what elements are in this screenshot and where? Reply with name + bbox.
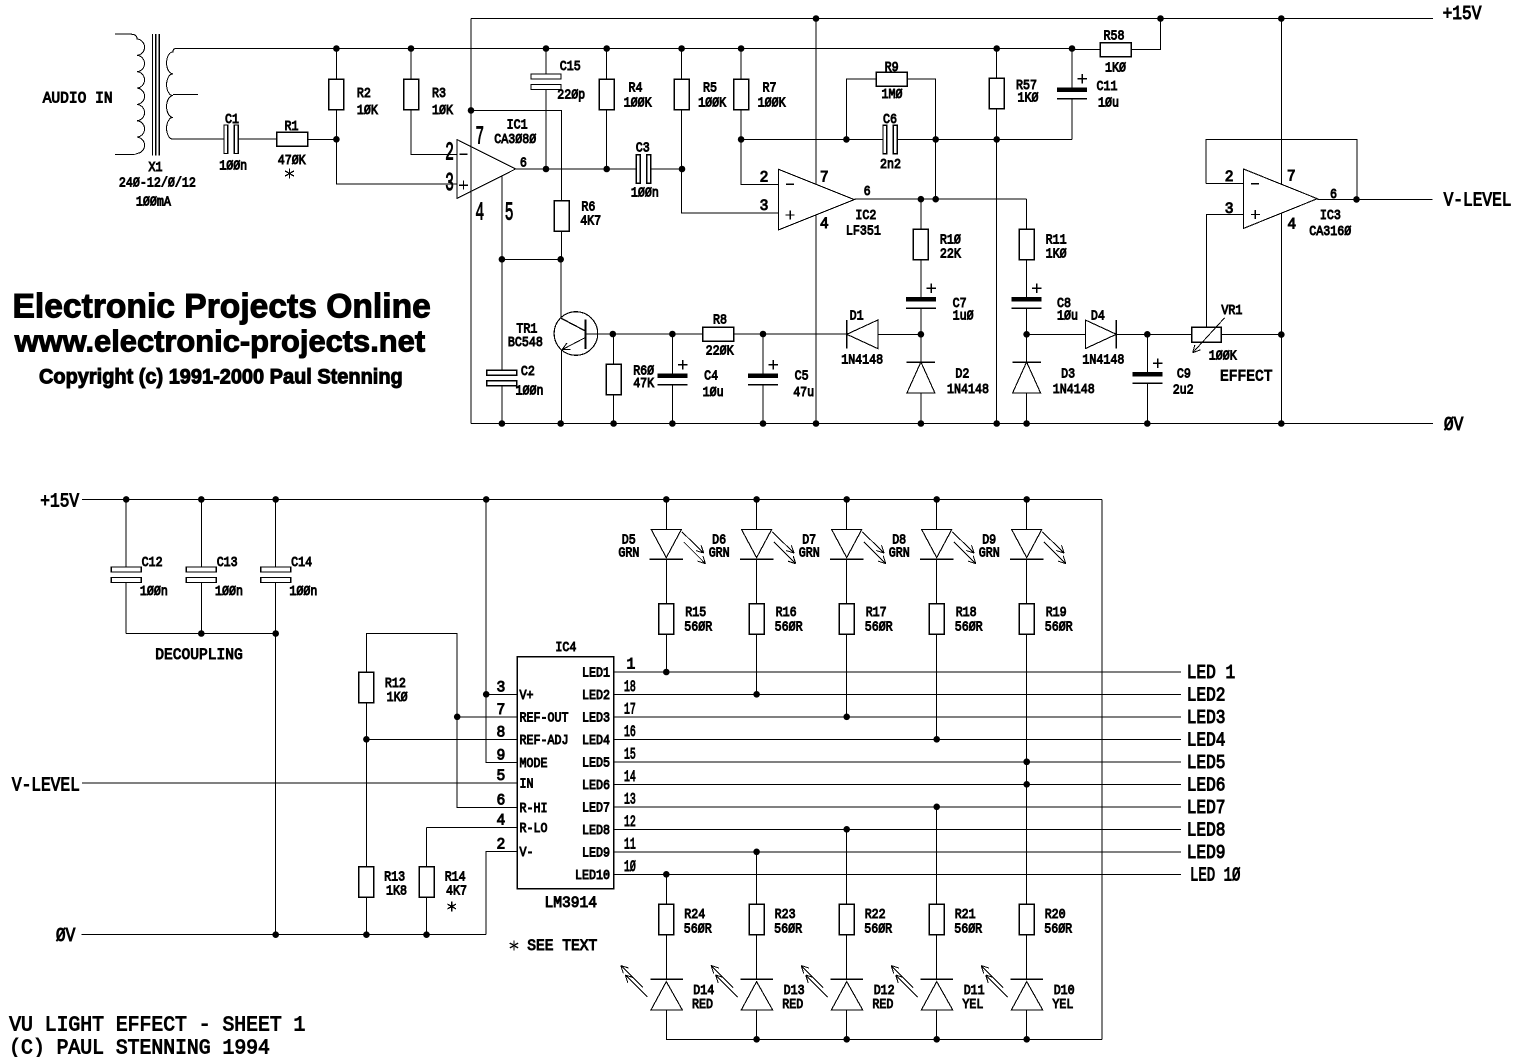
svg-text:+15V: +15V [40, 490, 79, 512]
svg-text:AUDIO IN: AUDIO IN [43, 90, 113, 108]
svg-text:REF-OUT: REF-OUT [520, 710, 569, 726]
svg-text:LM3914: LM3914 [545, 894, 598, 912]
svg-text:1: 1 [627, 656, 636, 674]
svg-text:LED10: LED10 [575, 868, 610, 884]
svg-text:LED2: LED2 [1187, 684, 1226, 706]
svg-text:LED9: LED9 [582, 845, 610, 861]
svg-text:1ØK: 1ØK [357, 103, 378, 119]
svg-text:D2: D2 [955, 367, 969, 383]
svg-text:4: 4 [820, 215, 829, 233]
svg-text:C1: C1 [225, 112, 239, 128]
svg-text:D4: D4 [1091, 309, 1105, 325]
svg-text:1N4148: 1N4148 [1082, 352, 1124, 368]
svg-text:RED: RED [692, 997, 713, 1013]
svg-text:R20: R20 [1045, 907, 1066, 923]
svg-text:5: 5 [497, 767, 506, 785]
svg-text:C6: C6 [883, 112, 897, 128]
svg-text:R23: R23 [775, 907, 796, 923]
svg-text:1Øu: 1Øu [703, 385, 724, 401]
svg-text:V-: V- [520, 845, 534, 861]
svg-text:5: 5 [505, 197, 514, 227]
svg-text:56ØR: 56ØR [865, 620, 893, 636]
svg-text:1Ø: 1Ø [624, 858, 636, 876]
svg-text:ØV: ØV [56, 925, 76, 947]
svg-text:12: 12 [624, 813, 636, 831]
svg-text:2n2: 2n2 [880, 157, 901, 173]
svg-text:C12: C12 [142, 555, 163, 571]
svg-text:1N4148: 1N4148 [841, 352, 883, 368]
svg-text:1ØØK: 1ØØK [624, 96, 652, 112]
svg-text:CA3Ø8Ø: CA3Ø8Ø [494, 132, 536, 148]
svg-text:IC3: IC3 [1320, 208, 1341, 224]
svg-text:1ØØn: 1ØØn [140, 584, 168, 600]
svg-text:LED6: LED6 [1187, 774, 1226, 796]
svg-text:ØV: ØV [1444, 414, 1464, 436]
svg-text:4K7: 4K7 [580, 214, 601, 230]
svg-text:R3: R3 [432, 86, 446, 102]
svg-text:1ØØmA: 1ØØmA [136, 194, 171, 210]
svg-text:1MØ: 1MØ [882, 87, 903, 103]
svg-text:22ØK: 22ØK [706, 343, 734, 359]
svg-text:1ØØK: 1ØØK [698, 96, 726, 112]
svg-text:56ØR: 56ØR [1045, 620, 1073, 636]
svg-text:MODE: MODE [520, 756, 548, 772]
svg-text:18: 18 [624, 678, 636, 696]
svg-text:56ØR: 56ØR [684, 922, 712, 938]
svg-text:R-HI: R-HI [520, 801, 548, 817]
svg-text:CA316Ø: CA316Ø [1309, 224, 1351, 240]
svg-text:4: 4 [1287, 215, 1296, 233]
svg-text:D3: D3 [1061, 367, 1075, 383]
svg-text:LED4: LED4 [1187, 729, 1226, 751]
svg-text:LED8: LED8 [1187, 819, 1226, 841]
svg-text:2: 2 [760, 169, 769, 187]
svg-text:IC4: IC4 [555, 640, 576, 656]
svg-text:C14: C14 [291, 555, 312, 571]
svg-text:C15: C15 [560, 59, 581, 75]
svg-text:R4: R4 [629, 81, 643, 97]
svg-text:R7: R7 [763, 81, 777, 97]
svg-text:LED5: LED5 [1187, 752, 1226, 774]
svg-text:47ØK: 47ØK [278, 153, 306, 169]
svg-text:1uØ: 1uØ [953, 309, 974, 325]
svg-text:1Øu: 1Øu [1057, 309, 1078, 325]
svg-text:YEL: YEL [1052, 997, 1073, 1013]
svg-text:56ØR: 56ØR [774, 922, 802, 938]
svg-text:2: 2 [497, 836, 506, 854]
svg-text:6: 6 [497, 791, 506, 809]
svg-text:13: 13 [624, 790, 636, 808]
svg-text:C4: C4 [704, 368, 718, 384]
svg-text:R22: R22 [865, 907, 886, 923]
svg-text:4: 4 [475, 197, 484, 227]
svg-text:IN: IN [520, 777, 534, 793]
svg-text:56ØR: 56ØR [775, 620, 803, 636]
svg-text:56ØR: 56ØR [954, 922, 982, 938]
svg-text:RED: RED [782, 997, 803, 1013]
svg-text:R24: R24 [684, 907, 705, 923]
svg-text:6: 6 [1330, 187, 1337, 203]
svg-text:+15V: +15V [1443, 3, 1482, 25]
svg-text:C2: C2 [521, 364, 535, 380]
svg-text:3: 3 [445, 168, 454, 198]
svg-text:LED8: LED8 [582, 823, 610, 839]
svg-text:1N4148: 1N4148 [947, 382, 989, 398]
svg-text:C13: C13 [217, 555, 238, 571]
svg-text:LED2: LED2 [582, 688, 610, 704]
svg-text:LED 1Ø: LED 1Ø [1190, 864, 1240, 886]
svg-text:1ØØn: 1ØØn [215, 584, 243, 600]
svg-text:C3: C3 [636, 141, 650, 157]
svg-text:56ØR: 56ØR [684, 620, 712, 636]
svg-text:1ØK: 1ØK [432, 103, 453, 119]
svg-text:4: 4 [497, 812, 506, 830]
svg-text:6: 6 [864, 184, 871, 200]
svg-text:47u: 47u [793, 385, 814, 401]
svg-text:1KØ: 1KØ [1046, 247, 1067, 263]
svg-text:22K: 22K [940, 247, 961, 263]
svg-text:2: 2 [445, 138, 454, 168]
svg-text:1ØØn: 1ØØn [631, 186, 659, 202]
svg-text:7: 7 [1287, 167, 1296, 185]
svg-text:GRN: GRN [889, 545, 910, 561]
svg-text:X1: X1 [149, 160, 163, 176]
svg-text:1ØØn: 1ØØn [219, 159, 247, 175]
svg-text:GRN: GRN [618, 545, 639, 561]
svg-text:C9: C9 [1177, 367, 1191, 383]
svg-text:14: 14 [624, 768, 636, 786]
svg-text:YEL: YEL [962, 997, 983, 1013]
svg-text:www.electronic-projects.net: www.electronic-projects.net [14, 323, 425, 358]
svg-text:GRN: GRN [979, 545, 1000, 561]
svg-text:LED9: LED9 [1187, 842, 1226, 864]
svg-text:(C) PAUL STENNING 1994: (C) PAUL STENNING 1994 [9, 1037, 270, 1057]
svg-text:2u2: 2u2 [1173, 383, 1194, 399]
svg-text:GRN: GRN [799, 545, 820, 561]
svg-text:D1: D1 [850, 309, 864, 325]
svg-text:15: 15 [624, 745, 636, 763]
svg-text:1ØØK: 1ØØK [758, 96, 786, 112]
svg-text:V+: V+ [520, 688, 534, 704]
svg-text:VR1: VR1 [1221, 303, 1242, 319]
svg-text:1Øu: 1Øu [1098, 96, 1119, 112]
svg-text:LED6: LED6 [582, 778, 610, 794]
svg-text:LED7: LED7 [582, 800, 610, 816]
svg-text:R-LO: R-LO [520, 821, 548, 837]
svg-text:LED7: LED7 [1187, 797, 1226, 819]
svg-text:1K8: 1K8 [386, 883, 407, 899]
svg-text:IC2: IC2 [855, 208, 876, 224]
svg-text:3: 3 [497, 678, 506, 696]
svg-text:LED5: LED5 [582, 755, 610, 771]
svg-text:GRN: GRN [709, 545, 730, 561]
svg-text:1ØØK: 1ØØK [1209, 348, 1237, 364]
svg-text:8: 8 [497, 723, 506, 741]
svg-text:17: 17 [624, 700, 636, 718]
svg-text:16: 16 [624, 723, 636, 741]
svg-text:11: 11 [624, 835, 636, 853]
svg-text:R21: R21 [955, 907, 976, 923]
svg-text:R58: R58 [1104, 29, 1125, 45]
svg-text:7: 7 [497, 701, 506, 719]
svg-text:1N4148: 1N4148 [1053, 382, 1095, 398]
svg-text:SEE TEXT: SEE TEXT [527, 937, 597, 955]
svg-text:LED 1: LED 1 [1187, 662, 1236, 684]
svg-text:IC1: IC1 [507, 118, 528, 134]
svg-text:1KØ: 1KØ [1018, 91, 1039, 107]
svg-text:1ØØn: 1ØØn [516, 384, 544, 400]
svg-text:R9: R9 [885, 60, 899, 76]
svg-text:LED3: LED3 [1187, 707, 1226, 729]
svg-text:LED4: LED4 [582, 733, 610, 749]
svg-text:R1: R1 [285, 119, 299, 135]
svg-text:24Ø-12/Ø/12: 24Ø-12/Ø/12 [119, 176, 196, 192]
svg-text:3: 3 [760, 197, 769, 215]
svg-text:DECOUPLING: DECOUPLING [155, 646, 243, 664]
svg-text:VU LIGHT EFFECT - SHEET 1: VU LIGHT EFFECT - SHEET 1 [9, 1014, 305, 1037]
svg-text:C5: C5 [795, 368, 809, 384]
svg-text:4K7: 4K7 [446, 883, 467, 899]
svg-text:LED1: LED1 [582, 666, 610, 682]
svg-text:EFFECT: EFFECT [1220, 367, 1273, 385]
svg-text:RED: RED [872, 997, 893, 1013]
svg-text:1KØ: 1KØ [387, 690, 408, 706]
svg-text:R8: R8 [713, 313, 727, 329]
svg-text:56ØR: 56ØR [1044, 922, 1072, 938]
svg-text:V-LEVEL: V-LEVEL [1444, 190, 1512, 212]
svg-text:C11: C11 [1097, 79, 1118, 95]
svg-text:V-LEVEL: V-LEVEL [12, 775, 80, 797]
svg-text:47K: 47K [633, 376, 654, 392]
svg-text:Electronic Projects Online: Electronic Projects Online [13, 287, 431, 325]
svg-text:56ØR: 56ØR [864, 922, 892, 938]
svg-text:56ØR: 56ØR [955, 620, 983, 636]
svg-text:1ØØn: 1ØØn [289, 584, 317, 600]
svg-text:Copyright (c) 1991-2000 Paul S: Copyright (c) 1991-2000 Paul Stenning [39, 366, 403, 389]
svg-text:R5: R5 [703, 81, 717, 97]
svg-text:7: 7 [475, 122, 484, 152]
svg-text:7: 7 [820, 169, 829, 187]
svg-text:9: 9 [497, 747, 506, 765]
svg-text:REF-ADJ: REF-ADJ [520, 733, 569, 749]
svg-text:R2: R2 [357, 86, 371, 102]
svg-text:22Øp: 22Øp [557, 87, 585, 103]
svg-text:BC548: BC548 [508, 335, 543, 351]
svg-text:3: 3 [1225, 200, 1234, 218]
svg-text:LF351: LF351 [846, 224, 881, 240]
svg-text:LED3: LED3 [582, 710, 610, 726]
svg-text:1KØ: 1KØ [1105, 61, 1126, 77]
